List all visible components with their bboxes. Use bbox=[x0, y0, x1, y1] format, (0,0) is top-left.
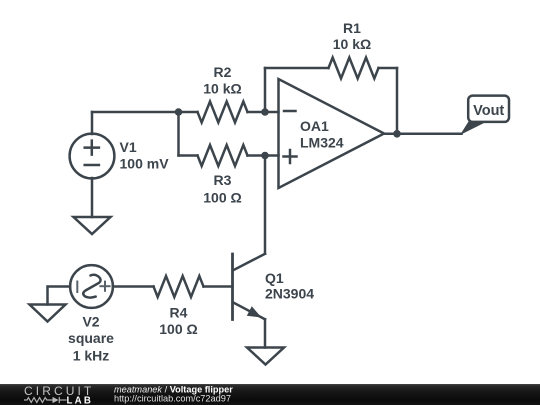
svg-text:R4: R4 bbox=[170, 304, 188, 320]
ground left of V2 bbox=[30, 305, 66, 322]
svg-text:10 kΩ: 10 kΩ bbox=[333, 36, 371, 52]
node Vout flag bbox=[460, 96, 509, 135]
svg-text:Vout: Vout bbox=[473, 103, 504, 119]
svg-text:LM324: LM324 bbox=[300, 135, 344, 151]
resistor R4 bbox=[113, 276, 233, 297]
svg-text:http://circuitlab.com/c72ad97: http://circuitlab.com/c72ad97 bbox=[114, 394, 231, 404]
ground below V1 bbox=[74, 217, 111, 234]
svg-text:100 Ω: 100 Ω bbox=[159, 321, 197, 337]
transistor Q1 bbox=[233, 254, 266, 320]
wire feedback right vertical bbox=[396, 68, 399, 134]
svg-text:1 kHz: 1 kHz bbox=[73, 348, 110, 364]
wire V2 left to ground stub bbox=[48, 287, 71, 305]
svg-text:Q1: Q1 bbox=[265, 270, 284, 286]
resistor R3 bbox=[179, 145, 279, 166]
junction node non-inverting input bbox=[261, 152, 269, 160]
wire V1 top horizontal to branch node bbox=[92, 111, 179, 114]
junction node output bbox=[393, 130, 401, 138]
resistor R2 bbox=[179, 102, 279, 123]
wire Q1 emitter to ground bbox=[264, 319, 267, 347]
svg-text:V1: V1 bbox=[120, 139, 137, 155]
svg-text:100 Ω: 100 Ω bbox=[203, 190, 241, 206]
op-amp OA1 bbox=[279, 79, 385, 188]
wire feedback left vertical bbox=[264, 68, 267, 112]
wire op-amp output bbox=[384, 133, 462, 136]
svg-text:100 mV: 100 mV bbox=[120, 155, 170, 171]
wire plus node down to Q1 collector bbox=[264, 156, 267, 254]
svg-text:V2: V2 bbox=[82, 314, 99, 330]
svg-text:square: square bbox=[68, 330, 114, 346]
wire V1 bottom to ground bbox=[91, 178, 94, 217]
svg-text:R3: R3 bbox=[214, 172, 232, 188]
wire branch down to R3 row bbox=[177, 112, 180, 156]
svg-text:R1: R1 bbox=[343, 20, 361, 36]
voltage source V1 bbox=[70, 134, 115, 179]
CircuitLab logo resistor-diode icon bbox=[24, 397, 67, 403]
svg-text:10 kΩ: 10 kΩ bbox=[203, 81, 241, 97]
resistor R1 bbox=[265, 58, 397, 79]
junction node branch of V1 into R2/R3 bbox=[175, 108, 183, 116]
svg-text:2N3904: 2N3904 bbox=[265, 286, 314, 302]
ground below Q1 emitter bbox=[247, 348, 284, 365]
svg-text:OA1: OA1 bbox=[300, 118, 329, 134]
junction node inverting input bbox=[261, 108, 269, 116]
svg-text:LAB: LAB bbox=[67, 395, 94, 405]
wire V1 positive terminal stub bbox=[91, 112, 94, 134]
voltage source V2 bbox=[70, 265, 113, 308]
svg-text:R2: R2 bbox=[214, 64, 232, 80]
